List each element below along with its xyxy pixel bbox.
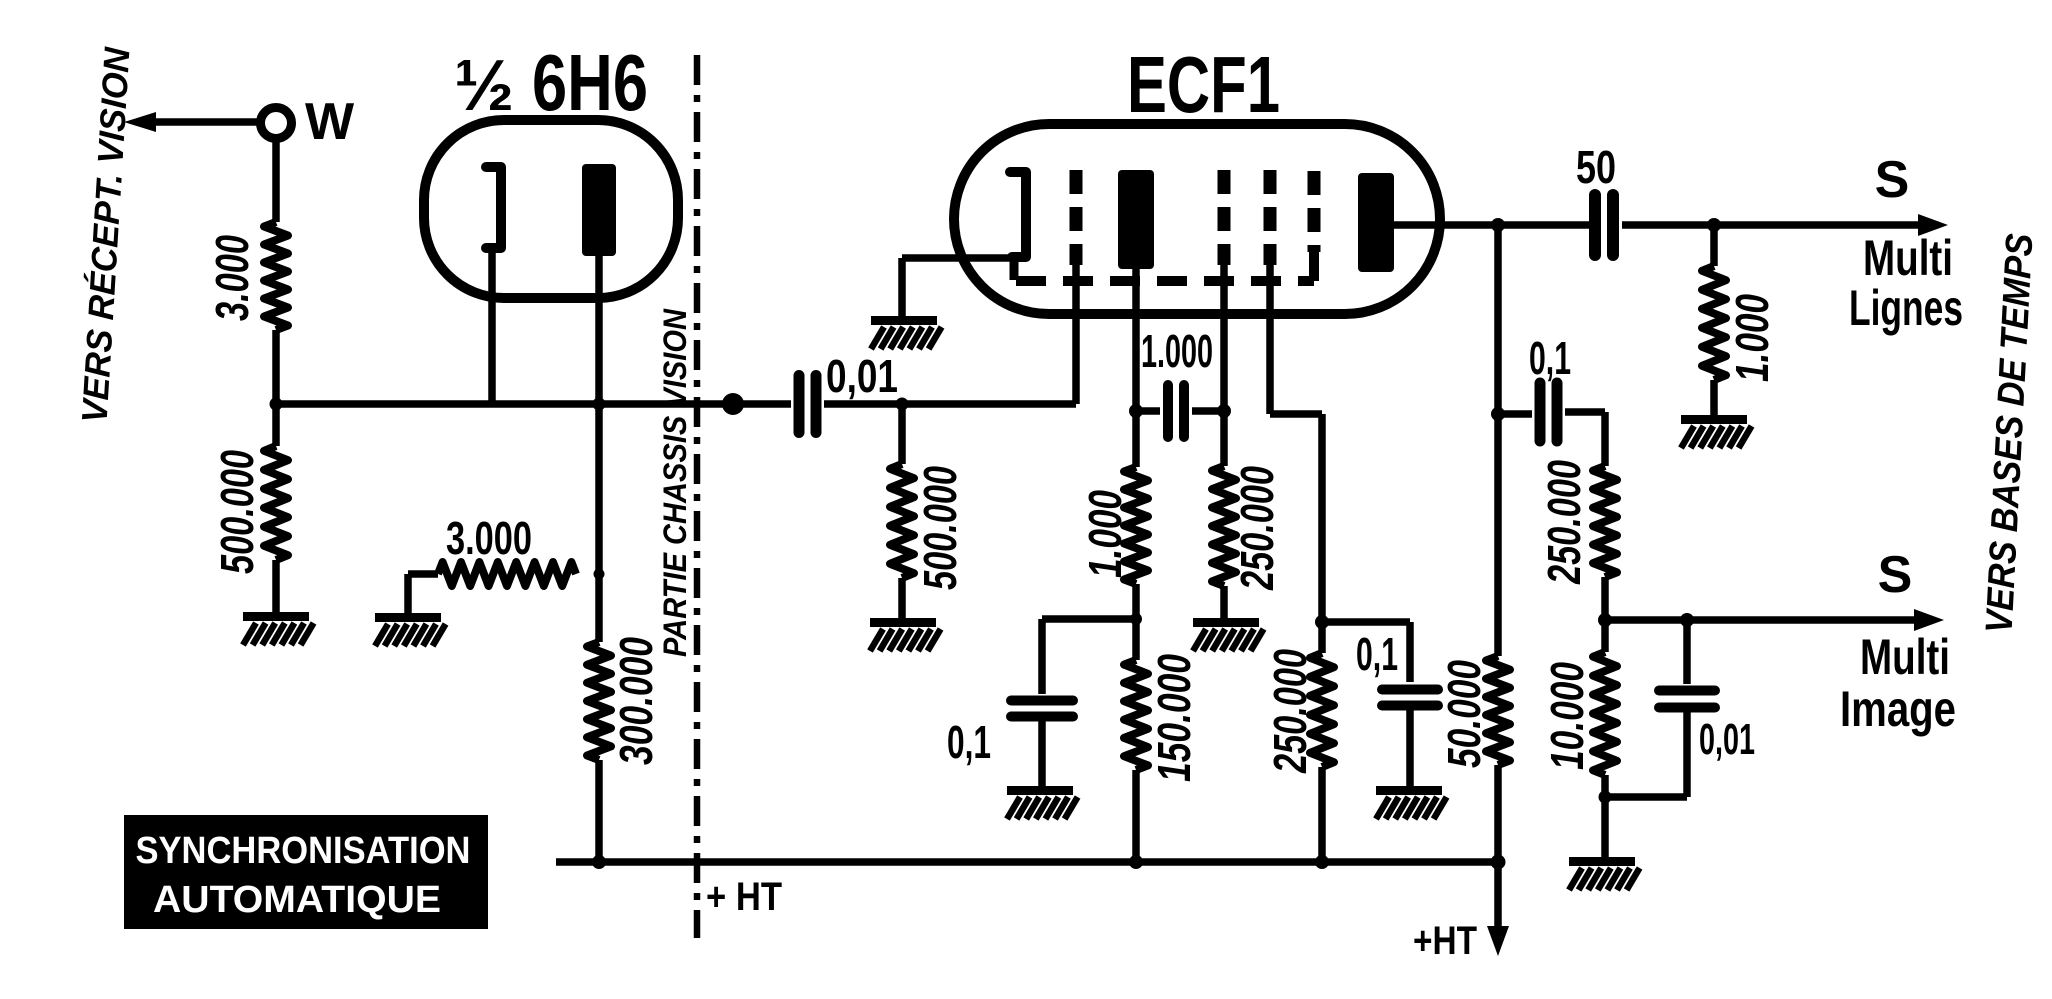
diode anode plate 6H6 — [582, 164, 616, 256]
terminal W — [261, 108, 292, 139]
internal shield dashed bus — [1016, 250, 1314, 281]
arrow S Multi Lignes — [1918, 214, 1948, 236]
ground 10.000 — [1569, 862, 1640, 891]
label 500.000 left — [211, 450, 263, 574]
resistor 150.000 — [1124, 660, 1148, 862]
wire screen grid down — [1270, 265, 1322, 622]
node F junction — [1217, 404, 1231, 418]
svg-text:0,1: 0,1 — [947, 716, 991, 768]
svg-text:250.000: 250.000 — [1538, 460, 1590, 585]
arrow S Multi Image — [1914, 609, 1944, 631]
wire cathode ECF1 to ground — [898, 258, 906, 318]
svg-text:+HT: +HT — [1413, 919, 1477, 963]
wire multi image — [1605, 616, 1915, 624]
svg-text:1.000: 1.000 — [1079, 490, 1131, 578]
label 500.000 center — [914, 466, 966, 590]
label 10.000 — [1541, 662, 1593, 770]
label 0,1 triode — [947, 716, 991, 768]
node E junction — [1130, 613, 1142, 625]
label VERS RÉCEPT. VISION — [74, 45, 138, 424]
label VERS BASES DE TEMPS — [1979, 233, 2042, 635]
label 250.000 grid — [1231, 466, 1283, 591]
ground cathode ECF1 — [871, 321, 942, 350]
node G junction — [1315, 615, 1329, 629]
arrow to vision receiver — [124, 112, 259, 132]
label 50.000 — [1438, 660, 1490, 768]
svg-text:3.000: 3.000 — [206, 235, 258, 321]
wire R 300.000 to bus — [595, 760, 603, 862]
label ECF1 — [1127, 40, 1280, 129]
svg-text:0,01: 0,01 — [1699, 715, 1755, 764]
node J junction — [1491, 407, 1505, 421]
wire 0,1 screen to ground — [1406, 706, 1414, 790]
wire anode node down — [595, 404, 603, 574]
label S lignes — [1875, 151, 1910, 209]
svg-text:W: W — [305, 93, 355, 151]
svg-text:300.000: 300.000 — [610, 637, 662, 765]
capacitor 50 — [1595, 195, 1613, 255]
label 1.000 anode — [1079, 490, 1131, 578]
label 0,01 image — [1699, 715, 1755, 764]
label +HT right — [1413, 919, 1477, 963]
bus +HT wire — [556, 858, 1498, 866]
resistor 50.000 — [1486, 414, 1510, 862]
resistor 3.000 (horizontal) — [438, 562, 576, 586]
capacitor 1.000 coupling — [1136, 385, 1224, 437]
capacitor 0,01 coupling — [799, 376, 816, 433]
label W — [305, 93, 355, 151]
resistor 300.000 — [587, 642, 611, 760]
svg-text:ECF1: ECF1 — [1127, 40, 1280, 129]
grid 4 ECF1 dashed — [1308, 171, 1321, 252]
svg-text:0,1: 0,1 — [1356, 628, 1398, 680]
label 50 — [1576, 141, 1616, 193]
resistor 250.000 (screen) — [1310, 622, 1334, 862]
label 0,01 coupling — [826, 350, 898, 402]
svg-text:150.000: 150.000 — [1148, 654, 1200, 782]
svg-text:Lignes: Lignes — [1849, 280, 1963, 336]
label 250.000 screen — [1264, 649, 1316, 774]
wire G to 0,1 screen cap — [1322, 622, 1410, 682]
svg-text:Multi: Multi — [1863, 230, 1953, 286]
wire triode anode down — [1132, 269, 1140, 411]
svg-text:50.000: 50.000 — [1438, 660, 1490, 768]
arrow +HT down — [1487, 862, 1509, 956]
wire R3.000 to node A — [272, 330, 280, 404]
svg-text:Multi: Multi — [1860, 629, 1950, 685]
label 150.000 — [1148, 654, 1200, 782]
svg-text:SYNCHRONISATION: SYNCHRONISATION — [136, 830, 471, 872]
svg-text:3.000: 3.000 — [446, 512, 532, 564]
pentode anode ECF1 — [1358, 173, 1394, 272]
svg-text:S: S — [1875, 151, 1910, 209]
wire 0,1 down to R 250.000 — [1601, 412, 1609, 466]
label PARTIE CHASSIS VISION — [657, 308, 693, 657]
wire anode 6H6 down — [595, 256, 603, 404]
wire cathode ECF1 left — [902, 254, 1014, 262]
ground left 500.000 — [243, 617, 314, 646]
diode cathode 6H6 — [486, 167, 501, 248]
node anode 6H6 — [593, 398, 606, 411]
ground 250.000 grid — [1193, 623, 1264, 652]
svg-text:6H6: 6H6 — [532, 38, 648, 127]
ground 500.000 center — [870, 623, 941, 652]
resistor 500.000 (left) — [264, 404, 288, 612]
resistor 1.000 (lignes) — [1702, 225, 1726, 417]
ground 0,1 triode — [1007, 791, 1078, 820]
node K junction — [1598, 613, 1612, 627]
svg-text:50: 50 — [1576, 141, 1616, 193]
wire pentode anode right — [1394, 221, 1589, 229]
svg-text:AUTOMATIQUE: AUTOMATIQUE — [153, 879, 441, 921]
cathode ECF1 — [1010, 172, 1026, 280]
title box SYNCHRONISATION AUTOMATIQUE — [124, 815, 488, 929]
node R 3.000h — [594, 569, 605, 580]
capacitor 0,01 (image) — [1659, 620, 1715, 797]
grid 1 ECF1 dashed — [1070, 170, 1083, 265]
wire cathode 6H6 down — [488, 250, 496, 404]
node A junction — [270, 398, 283, 411]
resistor 1.000 (anode load) — [1124, 411, 1148, 660]
svg-text:500.000: 500.000 — [914, 466, 966, 590]
label +HT left — [706, 875, 782, 919]
svg-text:10.000: 10.000 — [1541, 662, 1593, 770]
wire ground to R 3.000h — [408, 574, 438, 616]
label Image — [1840, 681, 1956, 737]
wire up to grid 1 — [1072, 262, 1080, 404]
wire anode to node B — [599, 400, 791, 408]
ground 1.000 lignes — [1681, 420, 1752, 449]
node bus anode — [592, 855, 606, 869]
svg-text:1.000: 1.000 — [1726, 294, 1778, 382]
label 0,1 screen — [1356, 628, 1398, 680]
node L junction — [1680, 613, 1694, 627]
grid 3 ECF1 dashed — [1264, 170, 1277, 265]
wire M to ground — [1601, 797, 1609, 859]
label 0,1 image — [1529, 332, 1571, 384]
svg-text:250.000: 250.000 — [1264, 649, 1316, 774]
capacitor 0,1 (coupling image) — [1498, 383, 1605, 441]
svg-text:0,01: 0,01 — [826, 350, 898, 402]
node B big dot — [722, 393, 744, 415]
svg-text:Image: Image — [1840, 681, 1956, 737]
svg-text:S: S — [1878, 546, 1913, 604]
svg-text:½: ½ — [454, 46, 514, 126]
label 1.000 cap — [1141, 325, 1213, 377]
tube V2 ECF1 envelope — [954, 124, 1440, 314]
svg-text:0,1: 0,1 — [1529, 332, 1571, 384]
ground 0,1 screen — [1376, 791, 1447, 820]
wire H down — [1494, 225, 1502, 414]
label 250.000 image — [1538, 460, 1590, 585]
svg-text:1.000: 1.000 — [1141, 325, 1213, 377]
wire 0,01 image bottom — [1605, 793, 1687, 801]
resistor 500.000 (center) — [890, 404, 914, 618]
label 300.000 — [610, 637, 662, 765]
resistor 3.000 (vertical) — [264, 222, 288, 330]
node H junction — [1491, 218, 1505, 232]
wire W to R 3.000 — [272, 139, 280, 222]
grid 2 ECF1 dashed — [1218, 170, 1231, 265]
resistor 10.000 — [1593, 620, 1617, 797]
wire cap 50 to arrow — [1622, 221, 1920, 229]
triode anode ECF1 — [1118, 170, 1154, 269]
resistor 250.000 (image grid) — [1593, 466, 1617, 620]
label Multi lignes — [1863, 230, 1953, 286]
svg-text:500.000: 500.000 — [211, 450, 263, 574]
tube V1 half 6H6 envelope — [424, 120, 678, 298]
node I junction — [1707, 218, 1721, 232]
node bus 150.000 — [1129, 855, 1143, 869]
svg-text:PARTIE CHASSIS VISION: PARTIE CHASSIS VISION — [657, 308, 693, 657]
label 3.000 vertical — [206, 235, 258, 321]
resistor 250.000 (grid leak) — [1212, 411, 1236, 618]
wire E to 0,1 cap — [1042, 619, 1136, 694]
svg-text:250.000: 250.000 — [1231, 466, 1283, 591]
wire cap 0,01 to grid — [824, 400, 1076, 408]
node bus 250.000 — [1315, 855, 1329, 869]
chassis partition dash-dot line — [694, 55, 701, 938]
svg-text:+ HT: + HT — [706, 875, 782, 919]
label Lignes — [1849, 280, 1963, 336]
capacitor 0,1 (triode cathode) — [1011, 701, 1073, 717]
label 3.000 horizontal — [446, 512, 532, 564]
ground 3.000 horizontal — [375, 618, 446, 647]
wire grid 2 down — [1220, 265, 1228, 411]
wire node A to cathode — [276, 400, 599, 408]
label Multi image — [1860, 629, 1950, 685]
node D junction — [1129, 404, 1143, 418]
node bus right — [1491, 855, 1506, 870]
label ½ 6H6 — [454, 38, 648, 127]
wire 0,1 to ground — [1038, 717, 1046, 790]
wire to R 300.000 — [595, 574, 603, 642]
label 1.000 lignes — [1726, 294, 1778, 382]
capacitor 0,1 (screen) — [1382, 690, 1438, 706]
node C junction — [896, 398, 909, 411]
label S image — [1878, 546, 1913, 604]
node M junction — [1599, 791, 1612, 804]
